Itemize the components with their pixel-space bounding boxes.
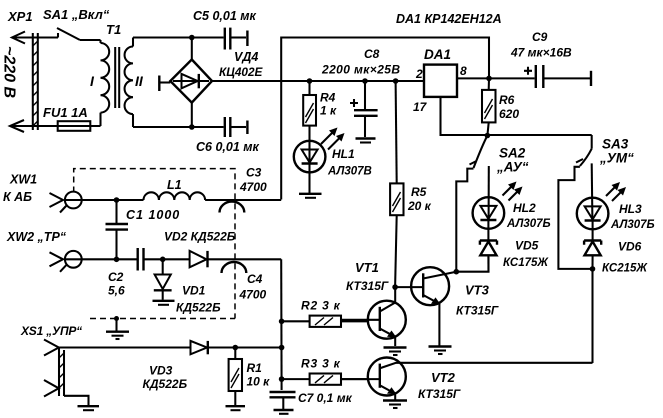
svg-text:VD5: VD5: [515, 239, 539, 253]
svg-text:С5 0,01 мк: С5 0,01 мк: [193, 9, 257, 23]
svg-text:HL2: HL2: [513, 201, 536, 215]
svg-text:5,6: 5,6: [108, 284, 125, 298]
svg-text:HL3: HL3: [619, 202, 642, 216]
svg-text:КТ315Г: КТ315Г: [418, 387, 461, 401]
svg-text:DA1 КР142ЕН12А: DA1 КР142ЕН12А: [396, 12, 502, 26]
svg-text:КТ315Г: КТ315Г: [456, 304, 499, 318]
svg-text:ХР1: ХР1: [7, 9, 33, 24]
svg-text:L1: L1: [167, 178, 182, 192]
svg-text:VD2 КД522Б: VD2 КД522Б: [164, 230, 236, 244]
svg-text:АЛ307В: АЛ307В: [327, 166, 372, 178]
svg-text:ХW2 „ТР“: ХW2 „ТР“: [6, 230, 67, 244]
svg-text:С2: С2: [108, 270, 124, 284]
svg-text:АЛ307Б: АЛ307Б: [506, 218, 551, 230]
svg-text:47 мк×16В: 47 мк×16В: [510, 46, 572, 60]
svg-text:КД522Б: КД522Б: [176, 301, 221, 315]
svg-text:КС175Ж: КС175Ж: [503, 257, 549, 269]
svg-text:КС215Ж: КС215Ж: [602, 263, 648, 275]
svg-text:20 к: 20 к: [407, 199, 432, 213]
svg-text:С7 0,1 мк: С7 0,1 мк: [298, 391, 353, 405]
svg-text:R2 3 к: R2 3 к: [301, 299, 341, 313]
svg-text:С4: С4: [247, 272, 263, 286]
svg-text:R1: R1: [247, 361, 263, 375]
svg-text:8: 8: [460, 64, 467, 78]
svg-text:1 к: 1 к: [320, 104, 337, 118]
svg-text:R5: R5: [411, 185, 427, 199]
svg-text:VД4: VД4: [234, 50, 258, 64]
svg-text:КТ315Г: КТ315Г: [346, 279, 389, 293]
svg-text:R4: R4: [320, 91, 336, 105]
svg-text:R3 3 к: R3 3 к: [301, 357, 341, 371]
svg-text:С9: С9: [532, 30, 548, 44]
svg-text:2200 мк×25В: 2200 мк×25В: [321, 63, 400, 77]
svg-text:II: II: [135, 73, 144, 89]
svg-text:Т1: Т1: [106, 22, 121, 37]
svg-text:17: 17: [413, 100, 428, 114]
svg-text:SA2: SA2: [499, 146, 526, 161]
svg-text:HL1: HL1: [332, 147, 355, 161]
svg-text:4700: 4700: [239, 288, 267, 302]
svg-text:10 к: 10 к: [247, 375, 271, 389]
svg-text:С8: С8: [364, 47, 380, 61]
svg-text:VT3: VT3: [465, 283, 490, 298]
svg-text:VT2: VT2: [431, 370, 456, 385]
svg-text:SA1 „Вкл“: SA1 „Вкл“: [43, 7, 110, 22]
svg-text:ХW1: ХW1: [9, 173, 37, 187]
svg-text:R6: R6: [499, 93, 515, 107]
svg-text:С6 0,01 мк: С6 0,01 мк: [196, 140, 260, 154]
svg-text:„АУ“: „АУ“: [496, 160, 529, 175]
svg-text:VT1: VT1: [355, 260, 379, 275]
svg-text:С3: С3: [246, 166, 262, 180]
svg-text:VD6: VD6: [618, 240, 642, 254]
svg-text:С1 1000: С1 1000: [126, 208, 180, 222]
svg-text:АЛ307Б: АЛ307Б: [610, 219, 655, 231]
svg-text:КД522Б: КД522Б: [143, 377, 188, 391]
svg-text:2: 2: [415, 67, 423, 81]
svg-text:„УМ“: „УМ“: [599, 151, 634, 166]
svg-text:ХS1 „УПР“: ХS1 „УПР“: [20, 324, 82, 338]
svg-text:620: 620: [499, 107, 519, 121]
svg-text:DA1: DA1: [424, 47, 451, 62]
svg-text:~220 В: ~220 В: [1, 46, 18, 98]
svg-text:FU1 1А: FU1 1А: [43, 105, 88, 120]
svg-text:SA3: SA3: [602, 137, 629, 152]
svg-text:КЦ402Е: КЦ402Е: [219, 65, 264, 79]
svg-text:VD1: VD1: [182, 284, 206, 298]
svg-text:К АБ: К АБ: [3, 190, 32, 204]
svg-text:VD3: VD3: [149, 364, 173, 378]
svg-text:4700: 4700: [239, 180, 267, 194]
